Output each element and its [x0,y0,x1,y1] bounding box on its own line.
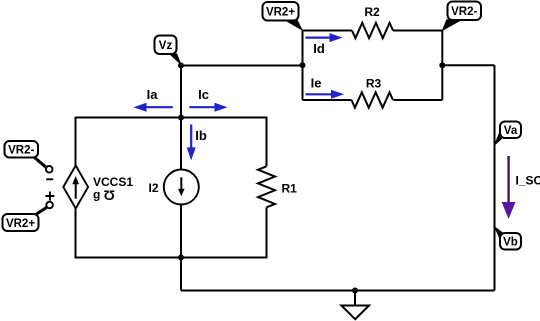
svg-text:g: g [93,188,100,202]
svg-text:Vz: Vz [159,40,173,52]
plus sign [45,192,54,201]
wire: R2R3 left vertical [302,31,304,101]
svg-text:Ib: Ib [195,128,207,143]
node label VR2- (top right) [442,2,482,32]
wire: R1 branch lower [266,207,268,258]
svg-text:Vb: Vb [503,236,518,248]
svg-text:VR2+: VR2+ [266,6,295,18]
junction R2R3 right [439,62,445,68]
node label Vb [494,226,522,250]
svg-text:R1: R1 [282,182,298,196]
wire: R3 left lead [303,99,352,101]
current source I2 [148,170,198,205]
svg-text:Va: Va [504,125,518,137]
wire: I2 branch lower [180,205,182,258]
node label VR2+ (top) [263,2,304,31]
svg-text:Ie: Ie [311,76,322,91]
ground [341,306,369,320]
VCCS U1 (diamond source) [63,166,133,209]
svg-text:I_SC: I_SC [516,174,540,188]
terminal circle (minus side) [46,166,53,173]
svg-text:Ic: Ic [198,87,209,102]
junction bottom rail / stub [178,255,184,261]
svg-text:VR2+: VR2+ [6,218,35,230]
resistor R3 [352,76,393,107]
wire: R2 right lead [393,30,442,32]
wire: R2R3 right vertical [441,31,443,101]
current arrow Ia [134,87,173,112]
current arrow Ib [187,125,207,161]
wire: right output branch vertical [494,65,496,290]
resistor R1 [258,166,297,207]
current arrow I_SC [502,156,540,219]
junction top rail / I2 branch [178,115,184,121]
wire: Vz horizontal feed [181,65,303,67]
wire: I2 branch upper [180,118,182,170]
wire: ground rail [181,290,495,292]
wire: left branch lower [75,209,77,259]
node label Va [494,122,522,147]
wire: R2 left lead [303,30,353,32]
wire: R3 right lead [394,99,443,101]
svg-text:Ω: Ω [104,187,115,203]
wire: bottom rail [76,257,267,259]
junction Vz node [178,63,184,69]
wire: right connector to output branch [442,64,494,66]
svg-text:R2: R2 [364,5,380,19]
wire: Vz vertical stem [180,66,182,118]
node label VR2+ (left) [3,207,47,232]
current arrow Ic [189,87,227,112]
wire: R1 branch upper [266,117,268,167]
wire: top rail [76,117,267,119]
wire: stub from bottom rail to ground rail [180,258,182,291]
svg-text:Id: Id [313,41,325,56]
svg-text:Ia: Ia [147,87,159,102]
current arrow Ie [306,76,345,99]
svg-text:I2: I2 [148,181,158,195]
node label VR2- (left) [5,141,47,168]
minus sign [46,178,53,180]
svg-text:VR2-: VR2- [451,6,477,18]
node label Vz [155,36,183,67]
wire: left branch upper [75,117,77,166]
svg-text:R3: R3 [366,76,382,90]
svg-text:VR2-: VR2- [8,145,34,157]
current arrow Id [306,33,343,56]
terminal circle (plus side) [46,202,53,209]
wire: ground stub [354,291,356,306]
resistor R2 [352,5,393,38]
junction ground [352,288,358,294]
junction R2R3 left [300,62,306,68]
